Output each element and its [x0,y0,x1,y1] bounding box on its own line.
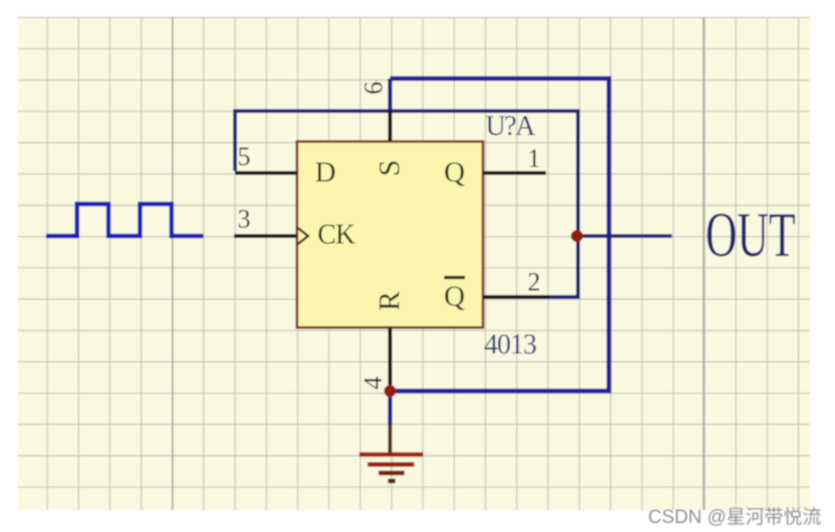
darker grid line right [703,17,705,510]
svg-text:4: 4 [359,377,388,390]
junction node OUT [571,230,583,242]
overbar of Qbar [444,276,465,279]
darker grid line left [172,17,174,510]
wire: S stub to top rail [388,79,392,113]
svg-text:OUT: OUT [706,200,796,270]
svg-text:1: 1 [528,144,541,173]
svg-text:4013: 4013 [484,330,537,361]
pin 6 (S) [388,110,392,141]
ground symbol [359,455,423,482]
svg-text:6: 6 [359,82,388,95]
svg-text:U?A: U?A [486,111,537,142]
svg-text:2: 2 [528,268,541,297]
svg-text:5: 5 [238,142,251,171]
svg-text:R: R [373,291,406,311]
wire: S pin top to right rail and bottom to R node [390,79,609,392]
wire: OUT line from junction [578,234,672,238]
svg-text:D: D [315,156,336,188]
svg-text:CSDN @星河带悦流: CSDN @星河带悦流 [648,506,821,528]
svg-text:CK: CK [318,220,356,251]
svg-text:Q: Q [444,156,465,188]
pin 4 (R) [388,328,392,391]
svg-text:3: 3 [238,205,251,234]
pin 2 (Qbar) [483,295,550,299]
svg-text:S: S [373,160,406,177]
svg-text:Q: Q [444,281,465,313]
pin 1 (Q) [483,171,546,175]
pin 3 (CK) [234,234,297,238]
pin 5 (D) [235,171,297,175]
junction node R/S tie [384,385,396,397]
D flip-flop U?A body [297,142,483,328]
wire: ground drop [388,391,392,425]
clock wedge on CK pin [298,228,308,244]
wire: clock square-wave input [46,204,204,236]
ground wire segment (maroon) [388,424,392,453]
wire: Qbar feedback up and across to D [235,111,578,297]
